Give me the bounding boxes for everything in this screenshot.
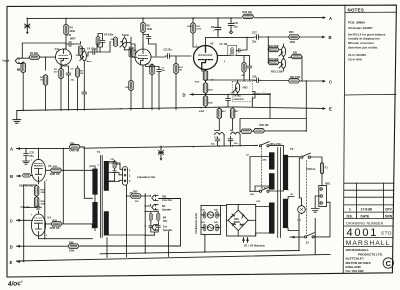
capacitor C23 50u reservoir	[24, 151, 29, 157]
wire V3 V4 cathode rail	[39, 182, 93, 239]
svg-text:220k: 220k	[70, 30, 76, 33]
svg-text:100k: 100k	[147, 28, 153, 31]
wire A line to standby switch	[84, 145, 257, 148]
wire S1 connections	[290, 202, 330, 238]
capacitor C24 bias	[35, 205, 41, 210]
node B arrow bottom left	[17, 175, 22, 178]
svg-text:File: 4001.DWF: File: 4001.DWF	[346, 269, 365, 273]
junction dots signal rows	[23, 36, 307, 254]
resistor R29 bias chain	[34, 197, 38, 208]
capacitor C6 under tone stack	[82, 90, 87, 96]
tube V4 output pentode	[31, 211, 45, 236]
svg-text:2: 2	[129, 174, 131, 177]
svg-text:220k: 220k	[187, 26, 193, 28]
wire zobel ties	[145, 212, 158, 236]
svg-text:CPV: CPV	[385, 208, 393, 212]
wire switch to fuse	[311, 157, 323, 163]
capacitor C11 coupling	[67, 42, 73, 47]
svg-text:56k: 56k	[111, 39, 115, 41]
svg-text:R29: R29	[53, 220, 58, 223]
svg-text:E: E	[329, 107, 332, 112]
svg-text:R36: R36	[70, 143, 75, 146]
svg-text:3: 3	[61, 67, 63, 69]
node C arrow bottom left	[17, 219, 33, 222]
wire R5 to pot	[81, 49, 85, 91]
svg-text:2k7: 2k7	[54, 72, 58, 74]
svg-text:22n: 22n	[252, 41, 257, 44]
node D arrow mid page	[190, 93, 270, 96]
wire rail to R8 to V1b anode	[142, 18, 144, 49]
svg-text:230v-240v: 230v-240v	[270, 143, 283, 146]
svg-text:32u: 32u	[234, 25, 239, 28]
resistor R9 cathode V1b	[150, 64, 154, 75]
svg-text:50u: 50u	[211, 144, 215, 146]
notes text lines	[348, 20, 386, 61]
dashed gang link mains switch to S1	[306, 161, 308, 234]
svg-text:C25: C25	[110, 159, 115, 161]
svg-text:R21: R21	[293, 52, 298, 55]
resistor R11 anode load V2	[191, 23, 195, 34]
capacitor C19 32u smoothing	[215, 25, 221, 33]
issue / date / drawn rows	[347, 208, 394, 219]
svg-text:100k: 100k	[196, 29, 202, 31]
feedback network box Fb	[228, 45, 237, 55]
wire R33 to jack column	[141, 194, 145, 253]
resistor R33 4k7 WW	[130, 194, 141, 198]
jack J2 line out	[152, 195, 158, 200]
wire R21 to C line junction	[301, 57, 303, 81]
junction dots on ground bus	[23, 107, 227, 112]
svg-text:C8 22n: C8 22n	[164, 49, 173, 52]
snubber resistor R32 across secondary	[113, 161, 116, 169]
svg-text:distortion just visible.: distortion just visible.	[348, 45, 378, 49]
resistor R23 dropper	[230, 108, 234, 119]
wire smoothing caps to rail and down	[218, 18, 231, 37]
svg-text:Master Volume: Master Volume	[254, 92, 272, 95]
resistor R5 1M	[43, 75, 47, 86]
svg-text:C: C	[329, 79, 332, 84]
resistor R8 anode load V1b	[141, 22, 145, 33]
svg-text:RV1.2 20k: RV1.2 20k	[271, 71, 283, 74]
wire pots to resistors	[279, 44, 291, 71]
svg-text:STD: STD	[381, 230, 392, 235]
node A arrow bottom left	[17, 147, 64, 150]
resistor R7b tail	[129, 80, 133, 91]
selector pin numbers	[129, 169, 131, 183]
wire lower send row	[252, 130, 306, 132]
svg-text:3: 3	[46, 180, 48, 182]
wire rail to anode resistor to V1a anode	[61, 18, 69, 110]
wire drop from tone row to lower row	[240, 81, 306, 132]
svg-text:R20: R20	[289, 31, 294, 34]
svg-text:50u: 50u	[30, 155, 35, 158]
company address block	[346, 248, 384, 273]
wire fuse to connector	[321, 174, 323, 186]
zobel capacitor C27	[156, 224, 160, 229]
resistor R1 33k grid stopper	[29, 55, 40, 59]
svg-text:A: A	[329, 16, 332, 21]
resistor R18 220k	[268, 47, 279, 51]
svg-text:820R: 820R	[199, 111, 205, 113]
wire anode junction to C11 to stack	[66, 42, 81, 50]
svg-text:330v: 330v	[262, 160, 268, 162]
svg-text:1: 1	[129, 169, 131, 172]
svg-text:R9: R9	[147, 64, 151, 66]
resistor R4 220k anode load	[64, 24, 68, 35]
wire R5 to bus	[45, 86, 47, 111]
svg-text:F1: F1	[325, 167, 329, 170]
svg-text:500p: 500p	[134, 57, 140, 59]
svg-text:A: A	[10, 147, 13, 152]
svg-text:B: B	[329, 35, 332, 40]
svg-text:1M: 1M	[40, 80, 43, 82]
jack J4 ext speaker	[152, 225, 159, 230]
transformer T1 primary winding bottom	[92, 202, 97, 228]
wire R27 to V3 grid	[31, 174, 33, 176]
svg-text:1M: 1M	[80, 73, 83, 75]
capacitor C22 filter	[228, 137, 233, 143]
resistor R inside Fb box	[231, 47, 234, 55]
wire V4 anode to OT	[46, 170, 93, 228]
svg-text:220k: 220k	[208, 103, 214, 105]
resistor R19 220k	[268, 60, 279, 64]
wire bridge connections	[227, 205, 256, 237]
svg-text:ISS.: ISS.	[347, 214, 353, 218]
wire snubber ties	[109, 161, 115, 181]
svg-text:C16: C16	[252, 76, 257, 79]
resistor R6 slope	[96, 36, 100, 45]
neon lamp N1	[298, 206, 306, 214]
svg-text:Speaker: Speaker	[162, 208, 171, 211]
notes title underline	[345, 11, 396, 13]
svg-text:3: 3	[98, 165, 100, 167]
wire treble ties	[100, 37, 131, 75]
svg-text:T500mA: T500mA	[306, 168, 316, 171]
resistor R13 tone lower	[129, 48, 133, 58]
svg-text:R18 220k: R18 220k	[269, 45, 280, 48]
svg-text:C: C	[386, 259, 392, 268]
svg-text:R22 10k: R22 10k	[243, 11, 253, 14]
zobel resistor R35	[157, 213, 160, 221]
ganged switch dashed link	[261, 148, 263, 190]
svg-text:Speaker: Speaker	[163, 229, 172, 232]
svg-text:overwind: overwind	[233, 99, 244, 101]
transformer T1 secondary winding bottom	[104, 211, 109, 235]
wire primary connections right	[288, 157, 299, 231]
svg-text:H1 + H2 filaments: H1 + H2 filaments	[244, 244, 266, 247]
junction dot screen node V3	[63, 170, 64, 171]
wire R7b to bus	[131, 44, 135, 110]
svg-text:CP 100n: CP 100n	[104, 34, 114, 37]
standby switch S2b lower	[259, 187, 269, 192]
capacitor C4 anode coupling	[146, 34, 151, 40]
component value annotations preamp	[17, 26, 239, 146]
svg-text:Line Out: Line Out	[162, 199, 172, 202]
svg-text:R37: R37	[117, 164, 122, 166]
svg-text:VR3: VR3	[243, 87, 248, 90]
wire filament frame	[201, 205, 227, 252]
resistor R3 cathode	[59, 68, 63, 79]
wire S2b ties	[250, 190, 284, 191]
wire OT primary ends	[84, 148, 95, 230]
wire lamp ties	[299, 157, 301, 214]
capacitor C5 100n	[100, 38, 105, 44]
svg-text:220k: 220k	[41, 192, 47, 194]
wire C4 tap	[143, 35, 156, 57]
svg-text:470R 1W: 470R 1W	[50, 227, 61, 230]
svg-text:B: B	[10, 174, 13, 179]
svg-text:R41: R41	[201, 221, 206, 224]
wire V2 anode out	[206, 37, 248, 55]
svg-text:V3.4= 6V6: V3.4= 6V6	[348, 58, 362, 62]
wire bias chain top tie	[24, 181, 39, 185]
wire stub to chassis symbol	[26, 18, 28, 22]
wire HT secondary to doubler	[250, 157, 269, 192]
svg-text:3: 3	[46, 235, 48, 237]
svg-text:S2b: S2b	[250, 194, 255, 196]
svg-text:PCB: JM86A: PCB: JM86A	[348, 20, 366, 24]
wire stack top ties	[97, 34, 103, 53]
resistor R17 dropper	[217, 108, 221, 119]
power switch S1	[305, 233, 315, 238]
wire secondary taps to selector	[109, 163, 123, 182]
wire C row	[205, 80, 326, 83]
wire jack to grid stopper	[22, 58, 30, 63]
resistor R14a below stack	[76, 68, 80, 78]
svg-text:17-5-88: 17-5-88	[361, 208, 373, 212]
svg-text:R38: R38	[69, 241, 74, 244]
wire HT supply rail	[27, 17, 322, 20]
svg-text:R1 33k: R1 33k	[30, 52, 39, 55]
title block table grid	[344, 183, 394, 246]
svg-text:4/oc′: 4/oc′	[7, 280, 23, 288]
bridge rectifier enclosure box	[227, 205, 256, 237]
svg-text:T1: T1	[97, 150, 101, 154]
svg-text:D: D	[183, 93, 186, 98]
svg-text:1M: 1M	[17, 70, 20, 72]
humdinger resistor R39	[203, 211, 206, 218]
wire switch to PT top	[270, 145, 284, 154]
node A arrow (top right)	[323, 16, 326, 19]
wire R10 to bus	[175, 56, 177, 110]
svg-text:100k: 100k	[290, 41, 296, 44]
potentiometer VR vol1	[80, 51, 87, 61]
resistor R5 270k	[79, 46, 83, 56]
transformer T1 secondary winding top	[104, 161, 109, 191]
filament feed arrows below box	[242, 238, 249, 243]
tube V1a triode	[56, 49, 72, 65]
resistor R10 grid leak V2	[174, 63, 178, 74]
resistor R7 tone	[114, 37, 118, 47]
wire resistor column joins	[205, 81, 207, 108]
svg-text:7: 7	[90, 167, 92, 169]
svg-text:C17: C17	[252, 32, 257, 35]
wire V1b cathode network to bus	[143, 64, 159, 110]
wire rail to R11 to V2 anode	[193, 18, 199, 47]
wire filter chain verticals	[215, 108, 241, 146]
wire preamp ground bus	[17, 107, 234, 119]
svg-text:R42: R42	[214, 221, 219, 224]
transformer T2 primary winding upper	[283, 155, 288, 190]
capacitor C15	[226, 96, 231, 102]
svg-text:MS1: MS1	[325, 183, 331, 186]
wire A line to V3 top	[38, 149, 40, 157]
svg-text:4001: 4001	[347, 227, 379, 239]
resistor column R14	[203, 70, 207, 81]
svg-text:R26 10k: R26 10k	[260, 124, 270, 127]
svg-text:DRAWING NUMBER: DRAWING NUMBER	[346, 222, 383, 226]
tube V3 output pentode	[31, 156, 45, 181]
svg-text:5W: 5W	[135, 201, 139, 203]
resistor column R15	[203, 83, 207, 94]
svg-text:R40: R40	[214, 209, 219, 212]
svg-text:WKT: WKT	[70, 37, 76, 40]
svg-text:+: +	[213, 29, 215, 33]
wire heater winding to bridge box	[256, 207, 269, 237]
wire V1b grid from volume pot	[132, 56, 135, 58]
svg-text:7: 7	[31, 160, 33, 162]
wire to speaker jack	[109, 205, 151, 235]
svg-text:R24 100k: R24 100k	[290, 76, 301, 79]
svg-text:S2: S2	[246, 155, 249, 157]
svg-text:DRN.: DRN.	[385, 214, 393, 218]
potentiometer RV2	[279, 59, 286, 69]
resistor column R16	[203, 96, 207, 107]
svg-text:3: 3	[129, 180, 131, 183]
svg-text:7: 7	[31, 215, 33, 217]
svg-text:Impedance Sel: Impedance Sel	[138, 176, 156, 179]
svg-text:C28: C28	[256, 201, 261, 203]
svg-text:ENGLAND: ENGLAND	[346, 265, 362, 269]
junction dot A line	[25, 146, 162, 149]
wire screen return bus	[22, 43, 66, 58]
input jack J1	[15, 58, 21, 63]
svg-text:250k: 250k	[76, 55, 82, 57]
node E arrow bottom rail	[17, 219, 331, 264]
capacitor C14 beside Fb box	[237, 49, 242, 53]
resistor R25 in lower send row	[241, 129, 252, 133]
transformer T2 heater winding	[269, 203, 275, 234]
snubber capacitor C25	[113, 169, 117, 174]
svg-text:V1b: V1b	[129, 46, 134, 50]
impedance selector SW2	[123, 167, 128, 186]
svg-text:25V: 25V	[163, 220, 168, 223]
svg-text:V3: V3	[48, 164, 52, 168]
zobel resistor R34	[149, 213, 152, 221]
svg-text:NOTES: NOTES	[348, 7, 365, 12]
svg-text:220k: 220k	[41, 204, 47, 206]
svg-text:S1: S1	[306, 242, 310, 245]
wire V2 cathode to divider column	[202, 70, 206, 72]
mains switch DPST upper	[301, 153, 311, 158]
svg-text:T2: T2	[290, 147, 294, 151]
resistor R20 100k	[289, 35, 300, 39]
wire Fb to C17 column	[247, 36, 254, 38]
svg-text:R12: R12	[195, 82, 200, 84]
wire divider column	[268, 37, 269, 63]
humdinger resistor R41	[203, 224, 206, 231]
svg-text:470R 1W: 470R 1W	[69, 150, 80, 153]
svg-text:R33: R33	[133, 190, 138, 193]
chassis fuse symbol top-left	[25, 23, 30, 34]
transformer T1 primary winding top	[92, 169, 97, 195]
svg-text:C: C	[10, 219, 13, 224]
zobel capacitor C26	[149, 224, 153, 229]
svg-text:C24 10u: C24 10u	[21, 206, 31, 209]
resistor R36 470R in A line	[69, 145, 80, 149]
svg-text:100k: 100k	[69, 250, 75, 253]
component value annotations power section	[29, 155, 302, 222]
transformer T2 secondary HT winding	[269, 152, 275, 169]
resistor R30 470R screen V3	[51, 168, 62, 172]
transformer T2 primary winding lower	[283, 199, 288, 228]
wire C23 to A line and ground	[25, 149, 27, 161]
wire C6 to bus	[84, 50, 131, 110]
svg-text:Input: Input	[3, 59, 10, 63]
transformer T2 core	[278, 148, 281, 238]
junction dot earth tie	[160, 145, 258, 148]
svg-text:V2: V2	[210, 42, 214, 46]
svg-text:C4 100p: C4 100p	[87, 48, 97, 51]
svg-text:DATE: DATE	[361, 214, 371, 218]
svg-text:Fb .1M: Fb .1M	[220, 43, 228, 46]
choke L1 humps	[215, 132, 241, 134]
tube V2 double triode	[194, 46, 218, 70]
wire bias chain middle	[24, 185, 37, 208]
ground symbol mains earth	[315, 196, 319, 208]
resistor R16a divider	[242, 62, 246, 72]
capacitor C17 22n	[254, 35, 260, 40]
capacitor C7 cathode bypass V1b	[157, 67, 162, 73]
junction dots jack column	[145, 195, 146, 236]
capacitor C13a divider	[247, 64, 252, 70]
wire VR3 connections	[238, 80, 255, 107]
svg-text:25u: 25u	[162, 70, 166, 72]
svg-text:470R 1W: 470R 1W	[50, 173, 61, 176]
potentiometer RV1	[279, 47, 286, 57]
potentiometer VR treble	[120, 38, 127, 48]
capacitor C8 interstage coupling	[165, 54, 171, 59]
svg-text:8: 8	[149, 67, 151, 69]
wire vertical left rail to E	[23, 185, 25, 261]
wire divider ties	[237, 55, 250, 80]
resistor R26 in lower send row	[254, 129, 265, 133]
resistor R27 grid stopper V3	[22, 174, 30, 177]
svg-text:L1: L1	[214, 137, 217, 139]
svg-text:1M: 1M	[179, 70, 182, 72]
resistor R28 bias chain	[34, 185, 38, 196]
svg-text:All diodes 1N4007: All diodes 1N4007	[348, 26, 373, 30]
svg-text:4k7: 4k7	[235, 110, 239, 113]
dashed front panel box VR3	[232, 81, 252, 102]
capacitor C16 20n in C row	[254, 78, 260, 83]
svg-text:6: 6	[224, 61, 226, 63]
resistor R21 balance	[291, 54, 302, 58]
terminal diamond C19	[229, 31, 232, 34]
capacitor C12 coupling	[91, 50, 97, 55]
junction dot cathode rail	[44, 238, 45, 239]
filament indicator H1	[207, 212, 213, 218]
svg-text:C2: C2	[71, 69, 75, 71]
svg-text:V4: V4	[47, 216, 51, 220]
svg-text:220k: 220k	[208, 90, 214, 92]
transformer T2 secondary winding 2	[269, 173, 275, 189]
svg-text:25u: 25u	[71, 80, 75, 82]
svg-text:Bass: Bass	[87, 61, 93, 63]
svg-text:W005: W005	[234, 221, 241, 224]
notes box bottom edge	[345, 93, 396, 96]
svg-text:4k7: 4k7	[222, 110, 226, 113]
